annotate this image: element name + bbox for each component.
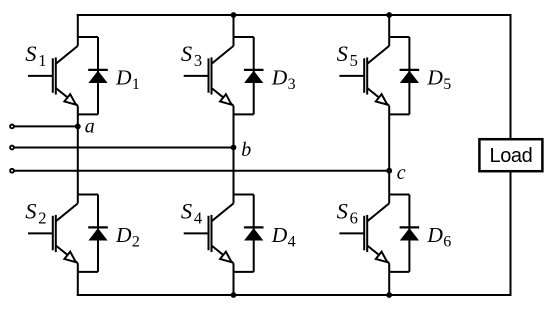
- transistor S4 (IGBT): [181, 199, 234, 264]
- wire diode branch top S1: [78, 36, 98, 38]
- svg-text:D: D: [426, 65, 443, 89]
- svg-text:D: D: [426, 223, 443, 247]
- wire emitter leg S1: [77, 106, 79, 127]
- wire collector leg S3: [233, 14, 235, 46]
- diode D1: [88, 65, 140, 93]
- wire diode branch bottom S2: [78, 271, 98, 273]
- wire diode branch vertical D1: [97, 37, 99, 114]
- wire diode branch bottom S1: [78, 113, 98, 115]
- svg-text:S: S: [181, 41, 192, 66]
- svg-text:D: D: [271, 223, 288, 247]
- wire diode branch vertical D3: [253, 37, 255, 114]
- node b: [231, 139, 252, 161]
- node c: [386, 162, 405, 184]
- junction top rail / leg c: [386, 12, 392, 18]
- wire diode branch vertical D2: [97, 195, 99, 272]
- svg-text:4: 4: [288, 234, 296, 251]
- diode D4: [244, 223, 296, 251]
- svg-text:4: 4: [194, 209, 202, 228]
- transistor S3 (IGBT): [181, 41, 234, 106]
- wire diode branch bottom S4: [234, 271, 254, 273]
- diode D5: [400, 65, 452, 93]
- svg-text:c: c: [397, 162, 406, 184]
- wire emitter leg S5: [388, 106, 390, 171]
- svg-text:S: S: [25, 199, 36, 224]
- wire collector leg S4: [233, 148, 235, 204]
- svg-text:6: 6: [443, 234, 451, 251]
- wire phase a output lead: [15, 125, 78, 127]
- junction bottom rail / leg b: [231, 292, 237, 298]
- wire diode branch bottom S6: [389, 271, 409, 273]
- svg-text:3: 3: [194, 51, 202, 70]
- transistor S5 (IGBT): [337, 41, 390, 106]
- wire emitter leg S3: [233, 106, 235, 148]
- wire collector leg S1: [77, 14, 79, 46]
- wire diode branch bottom S5: [389, 113, 409, 115]
- svg-text:2: 2: [132, 234, 140, 251]
- svg-text:b: b: [241, 139, 251, 161]
- svg-text:S: S: [337, 41, 348, 66]
- wire diode branch top S4: [234, 194, 254, 196]
- junction bottom rail / leg c: [386, 292, 392, 298]
- svg-text:1: 1: [132, 76, 140, 93]
- wire collector leg S5: [388, 14, 390, 46]
- wire positive DC rail (top): [77, 14, 512, 16]
- diode D2: [88, 223, 140, 251]
- wire collector leg S6: [388, 171, 390, 204]
- wire right side upper (top rail to load): [510, 14, 512, 139]
- svg-text:D: D: [115, 65, 132, 89]
- load block: [479, 139, 542, 171]
- wire diode branch vertical D4: [253, 195, 255, 272]
- svg-text:S: S: [181, 199, 192, 224]
- svg-text:D: D: [115, 223, 132, 247]
- wire right side lower (load to bottom rail): [510, 171, 512, 296]
- wire emitter leg S2: [77, 263, 79, 296]
- transistor S2 (IGBT): [25, 199, 78, 264]
- wire diode branch top S6: [389, 194, 409, 196]
- transistor S6 (IGBT): [337, 199, 390, 264]
- wire emitter leg S4: [233, 263, 235, 296]
- svg-text:Load: Load: [490, 145, 533, 167]
- terminal phase a: [10, 125, 14, 129]
- diode D6: [400, 223, 452, 251]
- wire diode branch vertical D5: [408, 37, 410, 114]
- wire diode branch vertical D6: [408, 195, 410, 272]
- svg-text:6: 6: [350, 209, 358, 228]
- wire diode branch bottom S3: [234, 113, 254, 115]
- svg-text:S: S: [25, 41, 36, 66]
- wire diode branch top S5: [389, 36, 409, 38]
- wire diode branch top S3: [234, 36, 254, 38]
- svg-text:5: 5: [443, 76, 451, 93]
- svg-text:5: 5: [350, 51, 358, 70]
- wire phase b output lead: [15, 147, 234, 149]
- terminal phase c: [10, 169, 14, 173]
- svg-text:D: D: [271, 65, 288, 89]
- wire phase c output lead: [15, 170, 390, 172]
- terminal phase b: [10, 146, 14, 150]
- junction top rail / leg b: [231, 12, 237, 18]
- diode D3: [244, 65, 296, 93]
- wire collector leg S2: [77, 126, 79, 203]
- svg-text:S: S: [337, 199, 348, 224]
- svg-text:1: 1: [38, 51, 46, 70]
- svg-text:2: 2: [38, 209, 46, 228]
- wire negative DC rail (bottom): [77, 294, 512, 296]
- wire diode branch top S2: [78, 194, 98, 196]
- svg-text:3: 3: [288, 76, 296, 93]
- node a: [75, 115, 95, 137]
- svg-text:a: a: [85, 115, 95, 137]
- transistor S1 (IGBT): [25, 41, 78, 106]
- wire emitter leg S6: [388, 263, 390, 296]
